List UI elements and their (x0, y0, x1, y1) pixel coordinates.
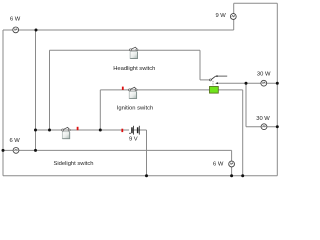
junction dot (277.3,126.7) (276, 125, 279, 128)
switch SW1 headlight (129, 47, 138, 58)
junction dot (242.7,175.7) (241, 174, 244, 177)
wire: vertical x=246 to lower 30W lamp (245, 83, 247, 127)
lamp L3 30W upper (261, 80, 267, 86)
junction dot (277.3,83.2) (276, 82, 279, 85)
fuse F2 (ignition circuit) (122, 87, 124, 90)
wire: relay coil row y=89.9 (100, 89, 242, 91)
wire: relay contact common stub y=79.9 (200, 79, 209, 81)
wire: battery positive vertical x=146.5 (146, 130, 148, 176)
relay RL1 upper throw stub (218, 75, 228, 77)
junction dot (3,150.4) (2, 149, 5, 152)
svg-text:6 W: 6 W (213, 161, 224, 167)
wire: vertical x=231.6 through right 6W lamp (231, 150, 233, 175)
svg-text:Ignition switch: Ignition switch (117, 105, 153, 111)
svg-text:9 V: 9 V (129, 137, 138, 143)
lamp L1 6W top left (13, 27, 19, 33)
svg-text:9 W: 9 W (215, 13, 226, 19)
lamp L4 30W lower (261, 124, 267, 130)
junction dot (231.6,175.7) (230, 174, 233, 177)
battery B1 9V (129, 126, 140, 135)
switch SW2 ignition (129, 87, 138, 98)
wire: top right link y=3.3 (234, 2, 278, 4)
relay RL1 contact common terminal (209, 79, 211, 81)
junction dot (100.3,130) (99, 129, 102, 132)
relay RL1 upper throw arrow (215, 75, 218, 77)
wire: left vertical bus x=3 (2, 30, 4, 176)
wire: vertical x=200 down to relay contact (199, 50, 201, 80)
wire: right vertical bus x=277.3 (276, 3, 278, 175)
lamp L2 9W (230, 14, 236, 20)
wire: vertical x=35.5 from top bus down to sidelight lamp wire (35, 30, 37, 150)
junction dot (49.5,130) (48, 129, 51, 132)
wire: vertical x=49.5 headlight feed (49, 50, 51, 130)
wire: vertical x=242.7 coil return (242, 90, 244, 176)
junction dot (36,30) (35, 29, 38, 32)
relay RL1 coil (210, 87, 219, 94)
switch SW3 sidelight (62, 127, 71, 138)
fuse F3 (battery) (121, 129, 123, 132)
fuse F1 (sidelight circuit) (77, 127, 79, 130)
lamp L5 6W bottom left (13, 148, 19, 154)
wire: 9W lamp vertical branch x=233.7 (233, 3, 235, 30)
junction dot (246,83.2) (245, 82, 248, 85)
junction dot (146.5,175.7) (145, 174, 148, 177)
svg-text:Sidelight switch: Sidelight switch (54, 161, 94, 167)
wire: sidelight lamp row y=150.4 (3, 149, 232, 151)
svg-text:6 W: 6 W (10, 17, 21, 23)
wire: vertical x=100.3 coil feed (99, 90, 101, 130)
svg-text:Headlight switch: Headlight switch (113, 66, 155, 72)
wire: relay contact throw to 30W lamps y=83.2 (218, 82, 277, 84)
wire: top bus y=30 from left vertical to 9W lamp branch (3, 29, 234, 31)
svg-text:6 W: 6 W (9, 138, 20, 144)
wire: battery row y=130 (36, 129, 147, 131)
junction dot (35.5,130) (34, 129, 37, 132)
wire: lower 30W lamp row y=126.7 (246, 126, 277, 128)
wire: headlight switch row y=50.2 (50, 49, 201, 51)
wire: bottom return bus y=175.7 (3, 175, 277, 177)
lamp L6 6W bottom right (229, 161, 235, 167)
relay RL1 contact arm (211, 76, 215, 79)
svg-text:30 W: 30 W (257, 72, 271, 78)
junction dot (35.5,150.4) (34, 149, 37, 152)
relay RL1 lower throw arrow (215, 82, 218, 84)
relay RL1 mechanical link (dashed) (212, 81, 214, 86)
svg-text:30 W: 30 W (256, 116, 270, 122)
